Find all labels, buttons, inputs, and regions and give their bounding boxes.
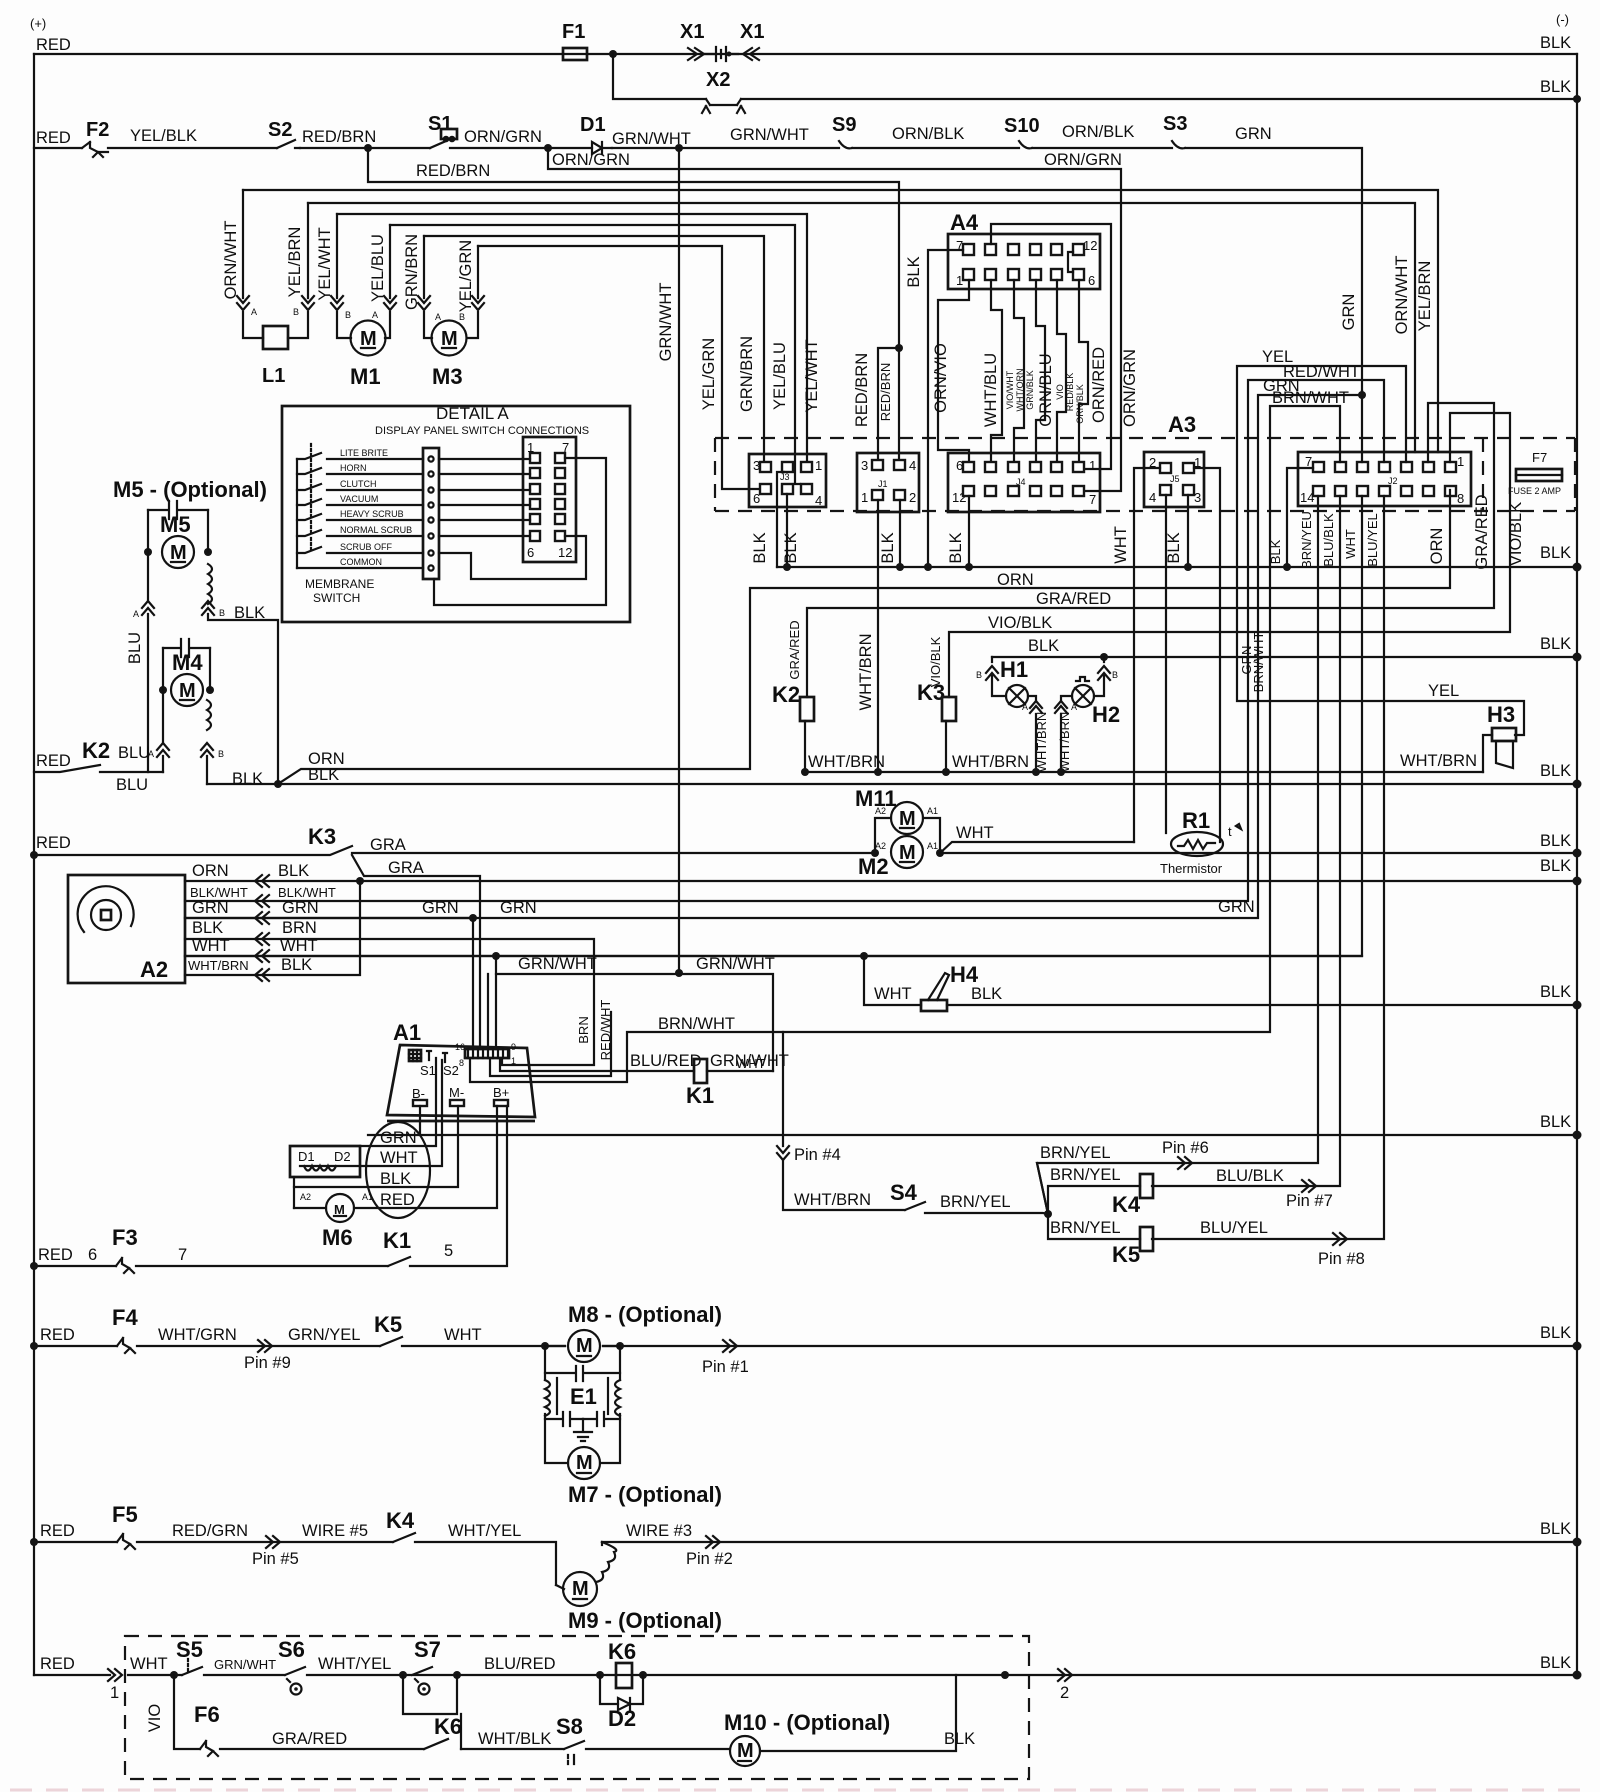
wire RED M6 row to B+ <box>294 1106 497 1208</box>
switch membrane row2 <box>297 468 423 474</box>
svg-text:RED: RED <box>36 129 71 147</box>
svg-text:BLK/WHT: BLK/WHT <box>278 885 336 900</box>
svg-text:A: A <box>251 307 257 317</box>
svg-text:M: M <box>170 542 187 564</box>
pin arrow Pin6 <box>1178 1157 1192 1169</box>
node dot M5 right <box>204 548 212 556</box>
svg-text:E1: E1 <box>570 1384 597 1409</box>
svg-text:ORN/GRN: ORN/GRN <box>1121 349 1139 427</box>
svg-text:S4: S4 <box>890 1180 918 1205</box>
svg-text:WHT: WHT <box>874 985 912 1003</box>
svg-text:M8 - (Optional): M8 - (Optional) <box>568 1302 722 1327</box>
node dot M8 left <box>541 1342 549 1350</box>
node dot M4 right <box>206 686 214 694</box>
wire H1.B up to BLK <box>992 657 1006 696</box>
pin arrow Pin7 <box>1302 1180 1316 1192</box>
svg-text:M9 - (Optional): M9 - (Optional) <box>568 1608 722 1633</box>
svg-text:GRN: GRN <box>1340 294 1358 331</box>
svg-text:BLK: BLK <box>1540 544 1571 562</box>
svg-text:BRN/YEL: BRN/YEL <box>1050 1166 1121 1184</box>
wire GRN J2/S3 to A2 row3 <box>185 391 1362 918</box>
svg-text:M: M <box>576 1452 593 1474</box>
pin arrow H2.B <box>1098 666 1110 680</box>
capacitor M4 <box>163 639 210 657</box>
svg-text:M-: M- <box>449 1085 464 1100</box>
svg-text:H1: H1 <box>1000 657 1028 682</box>
svg-text:B-: B- <box>412 1086 425 1101</box>
svg-text:A1: A1 <box>927 806 938 816</box>
pin arrow M5.B <box>202 601 214 615</box>
svg-text:RED/BRN: RED/BRN <box>878 363 893 422</box>
svg-text:F1: F1 <box>562 21 585 43</box>
switch membrane row3 <box>297 484 423 490</box>
svg-text:BLK: BLK <box>782 532 800 563</box>
svg-text:S8: S8 <box>556 1714 583 1739</box>
svg-text:RED: RED <box>36 36 71 54</box>
svg-text:M: M <box>334 1202 345 1217</box>
svg-text:Pin #6: Pin #6 <box>1162 1139 1209 1157</box>
svg-text:7: 7 <box>178 1246 187 1264</box>
wire J5 pin4 down to R1 left <box>1165 495 1167 833</box>
wire J2 BLU/BLK to K4 <box>1152 496 1340 1186</box>
svg-text:DETAIL A: DETAIL A <box>436 404 509 423</box>
pin arrow M4.B <box>201 743 213 757</box>
scan artifact strip bottom <box>10 1789 1590 1792</box>
svg-text:8: 8 <box>459 1058 464 1068</box>
icon A1 checker <box>409 1050 421 1061</box>
wire junction to K5 <box>1048 1214 1140 1239</box>
svg-text:ORN/GRN: ORN/GRN <box>552 151 630 169</box>
svg-text:BLK: BLK <box>1028 637 1059 655</box>
svg-text:ORN: ORN <box>192 862 229 880</box>
svg-text:BLK/WHT: BLK/WHT <box>190 885 248 900</box>
node dots BLK bus <box>783 563 791 571</box>
wire pin7 loop <box>434 458 606 605</box>
motor M8 <box>568 1330 600 1362</box>
svg-text:S9: S9 <box>832 114 856 136</box>
svg-text:BRN/YEL: BRN/YEL <box>1050 1219 1121 1237</box>
wire ORN/GRN branch S1 to J4 pin7 <box>548 148 1121 491</box>
wire YEL/GRN M3.B to J3 pin6 <box>478 246 759 489</box>
svg-text:Pin #5: Pin #5 <box>252 1550 299 1568</box>
svg-text:GRN/WHT: GRN/WHT <box>518 955 597 973</box>
svg-text:S7: S7 <box>414 1637 441 1662</box>
wire GRA/RED J2 to K2 coil <box>807 403 1494 697</box>
svg-text:BLK: BLK <box>1540 34 1571 52</box>
svg-text:Thermistor: Thermistor <box>1160 861 1223 876</box>
svg-text:HEAVY SCRUB: HEAVY SCRUB <box>340 509 404 519</box>
node dot M4 left <box>159 686 167 694</box>
svg-text:M4: M4 <box>172 650 203 675</box>
svg-text:GRN/WHT: GRN/WHT <box>214 1657 276 1672</box>
svg-text:BLK: BLK <box>1540 857 1571 875</box>
wire H3 WHT/BRN to bus <box>1483 735 1492 772</box>
svg-text:4: 4 <box>1149 490 1156 505</box>
wire strip to pins rows <box>439 459 530 536</box>
svg-text:BLK: BLK <box>1540 832 1571 850</box>
wire YEL/BLU column to M1 <box>385 225 390 338</box>
node dot right bus row1 <box>1573 877 1582 886</box>
svg-text:BLK: BLK <box>1540 1113 1571 1131</box>
svg-text:6: 6 <box>88 1246 97 1264</box>
wire VIO/BLK J2 to K3 coil <box>949 413 1510 697</box>
svg-text:GRN/WHT: GRN/WHT <box>730 126 809 144</box>
svg-text:YEL/BLK: YEL/BLK <box>130 127 197 145</box>
svg-text:GRA/RED: GRA/RED <box>1036 590 1111 608</box>
node dot F3 left <box>30 1262 38 1270</box>
wire F5 row <box>34 1542 1577 1585</box>
svg-text:Pin #2: Pin #2 <box>686 1550 733 1568</box>
svg-text:GRN/BRN: GRN/BRN <box>403 234 421 310</box>
svg-text:5: 5 <box>444 1242 453 1260</box>
wire junction to Pin6 diagonal <box>1037 1163 1048 1214</box>
svg-text:RED/GRN: RED/GRN <box>172 1522 248 1540</box>
wire BLK bus y567 <box>777 566 1577 568</box>
wire membrane common bus <box>296 459 298 568</box>
svg-text:B+: B+ <box>493 1085 509 1100</box>
svg-text:RED: RED <box>380 1191 415 1209</box>
node dot K6 in <box>596 1671 604 1679</box>
svg-text:t: t <box>1228 824 1232 839</box>
svg-text:WIRE #5: WIRE #5 <box>302 1522 368 1540</box>
wire M5 right leg coil <box>208 510 278 784</box>
wire RED/BRN to J1 pin3 <box>878 348 899 461</box>
svg-text:BLK: BLK <box>281 956 312 974</box>
connector J3 <box>749 454 826 507</box>
node dot right bus 1005 <box>1573 1001 1582 1010</box>
svg-text:R1: R1 <box>1182 808 1210 833</box>
svg-text:B: B <box>1112 670 1118 680</box>
wire YEL/BLU M1.A to J3 pin4 <box>390 225 800 484</box>
svg-text:BLK: BLK <box>751 532 769 563</box>
svg-text:K5: K5 <box>374 1312 402 1337</box>
switch membrane row8 <box>297 567 423 569</box>
pin arrow Pin1 <box>723 1340 737 1352</box>
wire S1 to D1 <box>450 147 592 149</box>
wire B- to 1135 <box>419 1106 421 1135</box>
svg-text:GRA/RED: GRA/RED <box>787 620 802 679</box>
svg-text:M3: M3 <box>432 364 463 389</box>
node dot S4 junction <box>1044 1210 1052 1218</box>
svg-text:X1: X1 <box>680 21 704 43</box>
svg-text:M: M <box>737 1740 754 1762</box>
wire top (+) rail <box>34 53 1577 55</box>
svg-text:A: A <box>435 312 441 322</box>
svg-text:K5: K5 <box>1112 1242 1140 1267</box>
pin arrow H2.A <box>1055 701 1067 713</box>
svg-text:M: M <box>899 842 916 864</box>
wire F4 row <box>34 1345 1577 1347</box>
wire J5 pin2 WHT down to M2 <box>1134 468 1160 842</box>
svg-text:16: 16 <box>455 1042 465 1052</box>
svg-text:Pin #7: Pin #7 <box>1286 1192 1333 1210</box>
svg-text:D1: D1 <box>298 1149 315 1164</box>
wire GRA K3 to M2.A2 <box>352 852 875 854</box>
wire S2 to S1 <box>300 147 430 149</box>
wire ORN/WHT L1.A to J2 area <box>243 190 1438 452</box>
wire WHT M6 row <box>300 1060 442 1166</box>
svg-text:VIO: VIO <box>1055 384 1065 400</box>
svg-text:F3: F3 <box>112 1225 138 1250</box>
svg-text:J1: J1 <box>878 479 888 489</box>
motor M3 <box>432 321 467 356</box>
inductor E1 left <box>545 1380 550 1416</box>
svg-text:A1: A1 <box>393 1020 421 1045</box>
svg-text:A: A <box>1071 702 1077 712</box>
wire S3 GRN to J2 column <box>1185 148 1362 391</box>
wire weave ORN/VIO A4.1 to J4.6 <box>938 280 969 462</box>
wire H2.B up to BLK <box>1094 657 1104 696</box>
capacitor E1 top <box>545 1366 620 1381</box>
wire BLK bus y784 <box>207 783 1577 785</box>
switch membrane row6 <box>297 530 423 536</box>
svg-text:BLK: BLK <box>1540 78 1571 96</box>
svg-text:HORN: HORN <box>340 463 367 473</box>
svg-text:WHT: WHT <box>380 1149 418 1167</box>
svg-text:ORN: ORN <box>1428 528 1446 565</box>
svg-text:A1: A1 <box>362 1192 373 1202</box>
switch membrane row1 <box>297 453 423 459</box>
relay coil K4 <box>1140 1174 1153 1198</box>
svg-text:S1: S1 <box>420 1063 436 1078</box>
svg-text:A: A <box>1022 702 1028 712</box>
node dot F4 left <box>30 1342 38 1350</box>
wire M8 taps <box>545 1345 620 1347</box>
svg-text:BLK: BLK <box>1268 539 1283 564</box>
node dot J5 pin3 to bus <box>1187 495 1189 567</box>
svg-text:A: A <box>372 310 378 320</box>
svg-text:BRN/YEL: BRN/YEL <box>1040 1144 1111 1162</box>
pin arrow A2 row3 <box>255 912 269 924</box>
svg-text:BLK: BLK <box>234 604 265 622</box>
node dot GRN junction <box>1358 391 1366 399</box>
svg-text:BRN: BRN <box>576 1016 591 1043</box>
svg-text:WHT: WHT <box>192 937 230 955</box>
wire BLK A4 pin7 to bus <box>928 250 963 567</box>
motor M1 <box>351 321 386 356</box>
pin arrow F5 row <box>266 1536 280 1548</box>
node junction X2 tap <box>609 50 617 58</box>
switch S1 icon A1 <box>427 1051 431 1060</box>
svg-text:ORN/BLK: ORN/BLK <box>892 125 964 143</box>
svg-text:BLU/BLK: BLU/BLK <box>1216 1167 1284 1185</box>
svg-text:ORN/BLU: ORN/BLU <box>1037 353 1055 426</box>
svg-text:M5: M5 <box>160 512 191 537</box>
wire bottom row <box>34 1674 1577 1676</box>
svg-text:6: 6 <box>1088 273 1095 288</box>
connector display 12-pin <box>523 437 576 562</box>
inductor E1 right <box>615 1380 620 1416</box>
svg-text:A3: A3 <box>1168 412 1196 437</box>
wire A2 row5 WHT segment <box>185 955 1362 957</box>
svg-text:1: 1 <box>511 1056 516 1066</box>
svg-text:F5: F5 <box>112 1502 138 1527</box>
wire WHT M2 to J5 <box>940 842 1134 853</box>
svg-text:WHT: WHT <box>130 1655 168 1673</box>
node dot M8 right <box>616 1342 624 1350</box>
node dot ORN tap <box>274 780 282 788</box>
wire A4 pin8 loop ORN/RED to J4 pin1 <box>991 224 1111 469</box>
svg-text:GRN/WHT: GRN/WHT <box>696 955 775 973</box>
svg-text:BRN/YEL: BRN/YEL <box>940 1193 1011 1211</box>
svg-text:1: 1 <box>1457 454 1464 469</box>
svg-text:BLK: BLK <box>1540 1520 1571 1538</box>
svg-text:Pin #4: Pin #4 <box>794 1146 841 1164</box>
wire S10 to S3 <box>1032 147 1172 149</box>
wire right BLK bus <box>1576 54 1578 1675</box>
svg-text:F6: F6 <box>194 1702 220 1727</box>
wire BRN/WHT J2 to A1 <box>470 406 1340 1082</box>
wire YEL/BRN column to L1 <box>288 203 308 338</box>
svg-text:GRN: GRN <box>192 899 229 917</box>
wire GRA branch to A1 <box>352 855 480 1049</box>
svg-text:CLUTCH: CLUTCH <box>340 479 377 489</box>
svg-text:GRN/BLK: GRN/BLK <box>1025 370 1035 410</box>
svg-text:ORN: ORN <box>997 571 1034 589</box>
svg-text:K1: K1 <box>686 1083 714 1108</box>
wire GRN M6 row <box>360 1058 436 1146</box>
wire BLK line y657 H1/H2 <box>992 656 1577 658</box>
pin arrow M1.B <box>331 296 343 310</box>
svg-text:BLK: BLK <box>308 766 339 784</box>
svg-text:RED: RED <box>38 1246 73 1264</box>
pin arrow M4.A <box>157 743 169 757</box>
wire F3 row <box>34 1106 507 1266</box>
svg-text:1: 1 <box>861 490 868 505</box>
svg-text:S6: S6 <box>278 1637 305 1662</box>
pin arrow bottom out <box>1058 1669 1072 1681</box>
node dot right bus 853 <box>1573 849 1582 858</box>
svg-text:F2: F2 <box>86 119 109 141</box>
svg-text:BLK: BLK <box>971 985 1002 1003</box>
wire X2 branch <box>613 54 1577 99</box>
wire H1.A down to bus <box>1028 696 1036 772</box>
connector X1 inline symbol <box>704 47 738 61</box>
svg-text:VIO/BLK: VIO/BLK <box>1507 502 1525 566</box>
wire J2 WHT to A2 row5 <box>185 496 1362 956</box>
wire weave ORN/BLU A4.6 to J4 <box>1079 280 1088 462</box>
svg-text:YEL/BLU: YEL/BLU <box>369 234 387 302</box>
svg-text:BRN/WHT: BRN/WHT <box>658 1015 735 1033</box>
svg-text:K4: K4 <box>386 1508 415 1533</box>
node dot GRN/WHT D1 join <box>675 969 683 977</box>
node dot S5 input <box>170 1671 178 1679</box>
wire GRN/BRN M3.A to J3 pin3 <box>424 236 764 462</box>
node dot K6 out <box>639 1671 647 1679</box>
svg-text:(-): (-) <box>1556 12 1569 27</box>
svg-text:A4: A4 <box>950 210 979 235</box>
box dashed bottom <box>125 1636 1029 1779</box>
svg-text:GRA: GRA <box>388 859 424 877</box>
svg-text:9: 9 <box>511 1042 516 1052</box>
pin arrow Pin4 <box>777 1146 789 1160</box>
svg-text:BRN/WHT: BRN/WHT <box>1251 632 1266 693</box>
wire M4 left leg <box>162 648 164 772</box>
svg-text:Pin #8: Pin #8 <box>1318 1250 1365 1268</box>
pin arrow M3.B <box>472 296 484 310</box>
svg-text:H2: H2 <box>1092 702 1120 727</box>
svg-text:WHT/BRN: WHT/BRN <box>952 753 1029 771</box>
pin arrow A2 row4 <box>255 933 269 945</box>
wire thermistor line to right bus <box>940 852 1577 854</box>
svg-text:BLK: BLK <box>1540 983 1571 1001</box>
svg-text:B: B <box>345 310 351 320</box>
svg-text:B: B <box>459 312 465 322</box>
wire junction to K4 <box>1048 1186 1140 1214</box>
svg-text:(+): (+) <box>30 16 46 31</box>
pin arrow M5.A <box>142 601 154 615</box>
node dot M2.A2 <box>871 849 879 857</box>
svg-text:K3: K3 <box>308 824 336 849</box>
svg-text:LITE BRITE: LITE BRITE <box>340 448 388 458</box>
svg-text:RED/BLK: RED/BLK <box>1065 373 1075 412</box>
svg-text:GRN: GRN <box>500 899 537 917</box>
node dot row1 x360 <box>356 877 364 885</box>
svg-text:A2: A2 <box>140 957 168 982</box>
pin arrow M3.A <box>418 296 430 310</box>
wire YEL/WHT M1.B to J3 pin1 <box>337 214 807 462</box>
wire VIO drop to F6 row <box>174 1675 424 1749</box>
wire J1 pin2 BLK down <box>899 500 901 567</box>
svg-text:BLU: BLU <box>116 776 148 794</box>
svg-text:WHT: WHT <box>444 1326 482 1344</box>
svg-text:FUSE 2 AMP: FUSE 2 AMP <box>1508 486 1561 496</box>
pin arrow A2 row2 <box>255 895 269 907</box>
wire weave WHT/BLU A4.2 to J4 <box>991 280 1002 462</box>
icon A2 transducer <box>91 900 121 930</box>
svg-text:BLU/BLK: BLU/BLK <box>1321 513 1336 567</box>
wire ORN/WHT column to L1 <box>243 190 263 338</box>
pin arrow Pin2 <box>706 1536 720 1548</box>
svg-text:ORN/GRN: ORN/GRN <box>464 128 542 146</box>
motor M10 <box>730 1736 760 1766</box>
wire weave WHT/ORN A4.4 to J4 <box>1036 280 1045 462</box>
svg-text:WHT/BLK: WHT/BLK <box>478 1730 551 1748</box>
svg-text:K6: K6 <box>608 1639 636 1664</box>
wire H2.A down to bus <box>1061 696 1072 772</box>
svg-text:GRN: GRN <box>1235 125 1272 143</box>
svg-text:ORN/GRN: ORN/GRN <box>1044 151 1122 169</box>
svg-text:BLK: BLK <box>278 862 309 880</box>
svg-text:GRA: GRA <box>370 836 406 854</box>
block A2 <box>68 875 185 983</box>
wire A4 pin12-pin6 jumper <box>1068 252 1073 272</box>
wire H4 branch WHT <box>864 956 921 1005</box>
svg-text:MEMBRANE: MEMBRANE <box>305 577 374 591</box>
wire WHT/BRN bus y772 <box>805 771 1483 773</box>
svg-text:WHT/ORN: WHT/ORN <box>1015 369 1025 412</box>
svg-text:WHT: WHT <box>1112 526 1130 564</box>
wire BLK M6 row to M- <box>294 1106 458 1187</box>
wire M10 riser <box>955 1675 957 1749</box>
svg-text:YEL/WHT: YEL/WHT <box>803 339 821 412</box>
svg-text:M6: M6 <box>322 1225 353 1250</box>
svg-text:NORMAL SCRUB: NORMAL SCRUB <box>340 525 412 535</box>
wire J2 pin7 BLK to bus <box>1287 468 1313 567</box>
wire K3 coil to WHT/BRN bus <box>945 721 947 772</box>
wire aux vertical to A1 <box>487 974 489 1049</box>
svg-text:WHT/BRN: WHT/BRN <box>1034 712 1049 773</box>
svg-text:H3: H3 <box>1487 702 1515 727</box>
svg-text:YEL/BRN: YEL/BRN <box>286 227 304 298</box>
svg-text:WHT: WHT <box>736 1056 766 1071</box>
wire row2 left segment <box>34 147 82 149</box>
node dot right bus 784 <box>1573 780 1582 789</box>
wire GRN vertical to A1 <box>472 918 474 1049</box>
wire S4 output BRN/YEL <box>925 1213 1048 1214</box>
motor M9 <box>563 1572 597 1606</box>
svg-text:BLK: BLK <box>192 919 223 937</box>
